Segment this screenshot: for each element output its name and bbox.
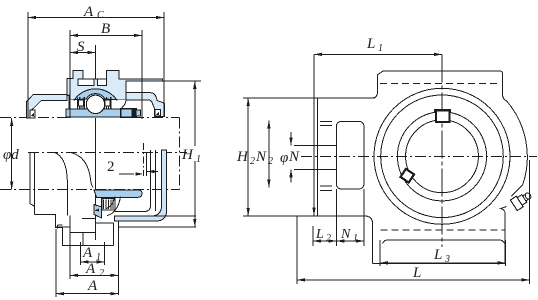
svg-text:2: 2 xyxy=(99,268,104,279)
svg-text:A: A xyxy=(87,278,98,294)
svg-text:H: H xyxy=(181,147,194,163)
svg-text:φd: φd xyxy=(3,147,19,163)
svg-text:1: 1 xyxy=(353,233,358,244)
svg-text:1: 1 xyxy=(378,43,383,54)
svg-text:C: C xyxy=(97,10,104,21)
svg-text:L: L xyxy=(433,247,442,263)
svg-text:2: 2 xyxy=(107,159,115,175)
svg-text:A: A xyxy=(82,245,93,261)
svg-text:N: N xyxy=(288,149,300,165)
svg-text:3: 3 xyxy=(444,254,450,265)
svg-text:2: 2 xyxy=(250,156,255,167)
svg-text:N: N xyxy=(340,227,351,242)
svg-text:2: 2 xyxy=(268,156,273,167)
svg-text:φ: φ xyxy=(280,150,288,166)
svg-text:2: 2 xyxy=(326,233,331,244)
svg-text:A: A xyxy=(83,4,94,20)
svg-text:A: A xyxy=(85,261,96,277)
svg-text:N: N xyxy=(255,149,267,165)
svg-text:B: B xyxy=(101,21,110,37)
svg-text:H: H xyxy=(236,149,249,165)
svg-text:1: 1 xyxy=(196,154,201,165)
svg-text:S: S xyxy=(77,39,85,55)
svg-text:L: L xyxy=(315,227,324,242)
svg-text:L: L xyxy=(412,265,421,281)
svg-text:1: 1 xyxy=(96,252,101,263)
svg-text:L: L xyxy=(366,36,375,52)
